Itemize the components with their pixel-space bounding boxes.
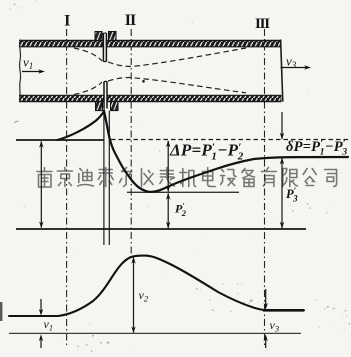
scan mark left edge dark — [0, 302, 2, 321]
v1 flow arrow — [22, 69, 45, 73]
P1 measure arrow — [39, 141, 43, 229]
vena contracta dot — [142, 80, 145, 83]
section line I — [66, 29, 68, 345]
v3 lower arrow — [264, 334, 268, 348]
svg-text:II: II — [125, 12, 136, 29]
svg-text:III: III — [255, 16, 270, 32]
orifice flange top-left block — [95, 32, 102, 41]
dashed flow line downstream upper — [108, 48, 246, 67]
P2 minimum level line — [127, 191, 239, 193]
dashed flow line downstream lower — [108, 78, 246, 93]
orifice flange bottom-left block — [96, 102, 103, 111]
section line III — [264, 29, 266, 345]
v3 flow arrow — [281, 65, 312, 69]
pipe right end edge — [281, 40, 283, 102]
velocity baseline — [9, 332, 301, 334]
orifice plate top half — [103, 33, 106, 62]
dashed flow line upstream upper — [74, 48, 102, 61]
svg-text:ΔP=P′1−P′2: ΔP=P′1−P′2 — [169, 141, 244, 163]
orifice flange bottom-right block — [111, 102, 119, 111]
velocity curve v3 flat emphasis — [263, 309, 304, 312]
v3 upper arrow — [264, 289, 268, 310]
scan mark small arrow speck — [14, 121, 19, 123]
dashed flow line upstream lower — [74, 82, 102, 95]
orifice plate bottom half — [104, 82, 107, 109]
P'2 measure arrow — [166, 193, 170, 229]
pressure dashed reference line — [111, 139, 348, 141]
watermark company text (gray CJK strokes) — [37, 168, 337, 188]
orifice flange top-right block — [109, 32, 117, 41]
pressure tap line downstream — [108, 111, 110, 245]
pressure top level line P1 — [16, 139, 104, 141]
v2 measure arrow — [131, 257, 135, 334]
section line II — [130, 29, 132, 255]
velocity curve — [9, 256, 304, 316]
P'3 measure arrow — [280, 158, 284, 229]
dP measure arrow — [166, 140, 170, 192]
pressure curve — [58, 111, 349, 192]
svg-text:δP=P′1−P′3: δP=P′1−P′3 — [286, 139, 347, 158]
pressure tap line upstream — [103, 111, 105, 245]
pipe bottom wall (hatched) — [19, 95, 282, 102]
v1 lower arrow — [39, 334, 43, 348]
deltaP upper stub arrow — [280, 112, 284, 140]
svg-text:I: I — [64, 13, 70, 30]
pipe top wall (hatched) — [19, 40, 282, 47]
pressure baseline — [16, 228, 306, 230]
v1 upper arrow — [39, 299, 43, 316]
pipe left break edge — [19, 40, 20, 103]
